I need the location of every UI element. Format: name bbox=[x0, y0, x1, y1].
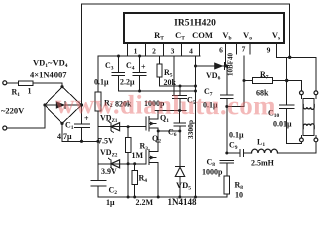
resistor R4 2.2M bbox=[132, 162, 154, 207]
wire C7 bottom to pin7 column bbox=[225, 105, 244, 108]
resistor R3 1M bbox=[125, 125, 148, 197]
pin 7 bbox=[242, 45, 246, 54]
pin 1 bbox=[134, 47, 138, 56]
bridge rectifier VD1~VD4 bbox=[30, 58, 82, 124]
capacitor C5 1000p bbox=[144, 86, 196, 111]
wire pin9 Vs bbox=[277, 43, 316, 91]
svg-text:0.01μ: 0.01μ bbox=[273, 120, 292, 129]
pin 6 bbox=[219, 46, 223, 55]
svg-text:IR51H420: IR51H420 bbox=[174, 19, 216, 29]
capacitor C8 1000p bbox=[202, 158, 234, 177]
wire top bypass rail bbox=[82, 4, 290, 57]
wire pin4 COM column bbox=[195, 56, 197, 197]
svg-text:2.2M: 2.2M bbox=[136, 198, 154, 207]
wire pin6 column bbox=[224, 44, 226, 67]
pin 3 bbox=[171, 47, 175, 56]
svg-text:www.dianlutu.com: www.dianlutu.com bbox=[55, 89, 276, 121]
capacitor C9 0.1u bbox=[227, 131, 252, 157]
svg-text:20k: 20k bbox=[164, 78, 177, 87]
svg-text:1000p: 1000p bbox=[202, 168, 223, 177]
svg-text:10BF40: 10BF40 bbox=[226, 53, 234, 76]
pin 2 bbox=[152, 47, 156, 56]
label 10BF40 bbox=[226, 53, 234, 76]
wire Q1 drain column bbox=[157, 111, 159, 120]
resistor R5 20k bbox=[157, 56, 177, 87]
wire VCC rail under IC pins bbox=[98, 55, 200, 57]
capacitor C3 0.1u bbox=[94, 55, 125, 92]
wire DC+ to top rail bbox=[81, 4, 83, 105]
svg-text:10: 10 bbox=[235, 191, 243, 200]
svg-text:0.1μ: 0.1μ bbox=[94, 78, 109, 87]
wire ground bus bbox=[98, 196, 227, 199]
svg-text:VD1~VD4: VD1~VD4 bbox=[33, 58, 68, 70]
svg-text:1: 1 bbox=[134, 47, 138, 56]
resistor R1 1 bbox=[12, 81, 63, 98]
wire R5 bottom to COM column bbox=[160, 85, 197, 88]
pin 4 bbox=[189, 47, 193, 56]
svg-text:9: 9 bbox=[267, 46, 271, 55]
transistor Q2 bbox=[146, 134, 161, 165]
svg-text:4×1N4007: 4×1N4007 bbox=[30, 70, 67, 80]
svg-text:COM: COM bbox=[192, 30, 213, 40]
zener diode VDZ2 3.9V bbox=[98, 148, 146, 176]
inductor L1 2.5mH bbox=[251, 138, 316, 168]
svg-text:4: 4 bbox=[189, 47, 193, 56]
wire DC- return bbox=[62, 123, 100, 142]
diode VD6 bbox=[194, 62, 228, 81]
svg-text:3: 3 bbox=[171, 47, 175, 56]
terminal input 1 bbox=[3, 81, 19, 85]
wire left supply rail bbox=[97, 56, 99, 197]
IC U1 IR51H420 bbox=[124, 13, 284, 56]
resistor R8 10 bbox=[224, 176, 243, 200]
wire pin7 column bbox=[243, 56, 246, 107]
wire Q1 source to Q2 drain bbox=[157, 128, 160, 152]
svg-text:3300p: 3300p bbox=[186, 120, 195, 139]
wire W2 bbox=[155, 109, 186, 112]
terminal input 2 bbox=[3, 105, 45, 130]
svg-text:1μ: 1μ bbox=[106, 198, 115, 207]
resistor R2 820k bbox=[95, 92, 132, 111]
capacitor C1 4.7u bbox=[57, 105, 90, 141]
wire W3 half-bridge mid bbox=[158, 130, 181, 133]
zener diode VDZ1 7.5V bbox=[98, 114, 128, 146]
svg-text:7.5V: 7.5V bbox=[98, 137, 114, 146]
svg-text:3.9V: 3.9V bbox=[101, 167, 117, 176]
transistor Q1 bbox=[128, 114, 169, 131]
svg-text:4.7μ: 4.7μ bbox=[57, 132, 72, 141]
svg-text:1N4148: 1N4148 bbox=[168, 197, 197, 207]
svg-text:1: 1 bbox=[28, 87, 32, 96]
wire Vs to C10 column bbox=[285, 57, 288, 82]
svg-text:+: + bbox=[141, 63, 146, 72]
label ~220V bbox=[1, 106, 25, 116]
svg-text:2.2μ: 2.2μ bbox=[120, 78, 135, 87]
capacitor C7 0.1u bbox=[203, 66, 233, 153]
node bridge vertices bbox=[43, 85, 83, 125]
capacitor C10 0.01u bbox=[268, 81, 301, 144]
svg-text:6: 6 bbox=[219, 46, 223, 55]
capacitor C2 1u bbox=[91, 181, 117, 208]
svg-text:1M: 1M bbox=[132, 151, 144, 160]
capacitor C4 2.2u bbox=[120, 55, 146, 92]
capacitor C6 3300p bbox=[168, 111, 195, 167]
resistor R7 68k bbox=[244, 70, 301, 98]
watermark www.dianlutu.com bbox=[55, 89, 276, 121]
wire Q2 source to bus bbox=[157, 163, 159, 198]
wire C3/C4 bottoms bbox=[119, 90, 198, 93]
svg-text:0.1μ: 0.1μ bbox=[229, 131, 244, 140]
diode VD5 1N4148 bbox=[168, 166, 197, 207]
wire output node to C9 bbox=[225, 152, 228, 155]
svg-text:2: 2 bbox=[152, 47, 156, 56]
svg-text:2.5mH: 2.5mH bbox=[251, 159, 275, 168]
lamp fluorescent tube bbox=[300, 91, 318, 142]
svg-text:~220V: ~220V bbox=[1, 106, 25, 116]
svg-text:7: 7 bbox=[242, 45, 246, 54]
wire pin3 column bbox=[173, 56, 175, 96]
pin 9 bbox=[267, 46, 271, 55]
